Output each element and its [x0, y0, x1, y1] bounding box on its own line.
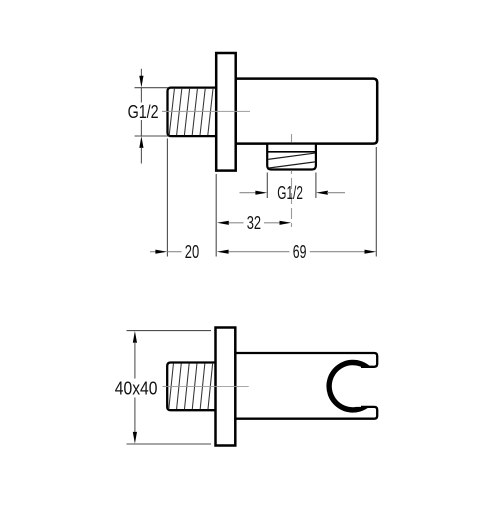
nipple hatch (bottom) — [169, 362, 221, 411]
outlet thread hatch — [266, 153, 317, 169]
center line horizontal (bottom view) — [163, 386, 249, 388]
threaded nipple (top view) — [168, 88, 217, 137]
center line horizontal again over nipple — [162, 110, 250, 112]
holder bar fill — [236, 353, 377, 419]
svg-text:69: 69 — [293, 241, 307, 262]
center line horizontal (top view) — [162, 110, 250, 112]
flange (bottom view) — [216, 328, 236, 446]
bottom G1/2 dimension — [240, 192, 257, 194]
nipple hatch — [169, 87, 221, 137]
svg-text:40x40: 40x40 — [115, 378, 158, 399]
center line horizontal redraw — [163, 386, 249, 388]
outlet (threaded, below body) — [267, 144, 316, 170]
left G1/2 dimension line + arrows — [140, 69, 142, 77]
32 dimension — [217, 221, 229, 225]
ext line from body right edge down — [375, 147, 377, 257]
ext line from flange left edge down — [215, 174, 217, 257]
flange (top view) — [216, 53, 236, 171]
ext lines below outlet — [266, 173, 268, 199]
C holder ring — [326, 360, 370, 413]
svg-text:20: 20 — [185, 241, 199, 262]
ext line from nipple left edge down — [166, 139, 168, 257]
center line vertical outlet (dashed) — [291, 134, 293, 143]
svg-text:32: 32 — [247, 212, 261, 233]
svg-text:G1/2: G1/2 — [128, 101, 159, 122]
threaded nipple (bottom view) — [167, 363, 216, 411]
holder bar outline with slot — [236, 353, 377, 419]
outlet thread line — [268, 151, 315, 153]
svg-text:G1/2: G1/2 — [277, 182, 303, 203]
body — [236, 79, 378, 144]
ext lines for left G1/2 — [135, 87, 169, 89]
20 / 69 dimension line — [150, 251, 156, 253]
